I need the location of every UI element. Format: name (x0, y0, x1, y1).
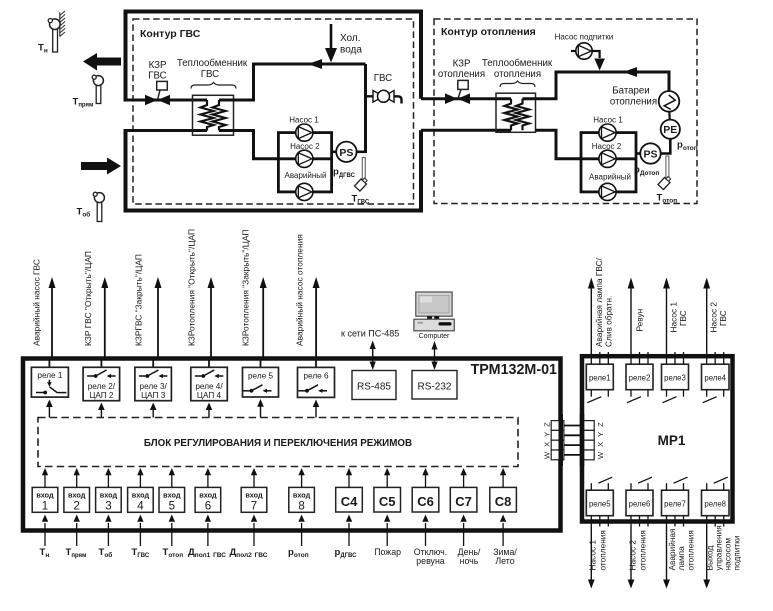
dashed boundary Контур отопления (434, 19, 697, 204)
svg-text:Хол.: Хол. (340, 33, 361, 44)
relay реле8 МР1 (702, 477, 730, 526)
relay реле 3/ЦАП 3 (135, 367, 172, 400)
pump Насос 1 ГВС (296, 124, 313, 141)
svg-text:Насос 1: Насос 1 (289, 116, 319, 125)
sensor Тотоп (657, 156, 678, 205)
svg-text:Ревун: Ревун (635, 309, 645, 332)
input box вход 3 (96, 487, 122, 512)
svg-text:3: 3 (105, 501, 111, 513)
svg-text:реле8: реле8 (704, 500, 726, 509)
input box вход 8 (289, 487, 315, 512)
svg-text:Насос подпитки: Насос подпитки (555, 33, 614, 42)
svg-text:PS: PS (643, 149, 657, 161)
svg-text:Насос 2: Насос 2 (628, 540, 638, 571)
output arrow реле8 МР1 (Выход управления насосом подпитки) (703, 525, 741, 588)
wire pipe supply to HX GVS (y=100) (124, 99, 208, 102)
svg-text:PE: PE (663, 124, 677, 136)
sensor Тгвс (352, 158, 370, 206)
svg-text:реле1: реле1 (589, 374, 611, 383)
svg-text:реле 5: реле 5 (248, 372, 273, 381)
svg-text:6: 6 (205, 501, 211, 513)
arrow flow out (big left arrow) (83, 53, 121, 71)
svg-text:ГВС: ГВС (201, 69, 219, 80)
relay реле5 МР1 (586, 477, 613, 526)
svg-text:реле2: реле2 (629, 374, 651, 383)
svg-text:ЦАП 4: ЦАП 4 (197, 391, 222, 400)
svg-text:Аварийная лампа ГВС/: Аварийная лампа ГВС/ (594, 257, 604, 347)
svg-text:Теплообменник: Теплообменник (177, 58, 248, 69)
svg-text:КЗР: КЗР (453, 59, 471, 70)
svg-text:ночь: ночь (460, 556, 479, 566)
svg-text:КЗРотопления "Открыть"/ЦАП: КЗРотопления "Открыть"/ЦАП (187, 229, 197, 346)
svg-text:4: 4 (137, 501, 144, 513)
svg-text:КЗР: КЗР (149, 60, 167, 71)
connector WXYZ ТРМ side (543, 421, 564, 460)
wire pipe supply to HX otop (y=98.7) (421, 97, 511, 100)
wire heating-network return run (bottom edges) (126, 130, 422, 210)
wire WXYZ interconnect lines (564, 426, 582, 455)
svg-text:Аварийный: Аварийный (285, 171, 327, 180)
valve КЗР отопления (438, 59, 485, 105)
svg-text:отопления: отопления (438, 69, 485, 80)
svg-text:PS: PS (339, 147, 353, 159)
svg-text:Контур ГВС: Контур ГВС (140, 28, 201, 40)
svg-text:ГВС: ГВС (148, 71, 166, 82)
svg-text:к сети ПС-485: к сети ПС-485 (341, 329, 399, 339)
input box вход 4 (128, 487, 154, 512)
arrow flow left on upper otop line (623, 67, 637, 77)
svg-text:вход: вход (100, 490, 118, 499)
svg-text:7: 7 (251, 501, 257, 513)
svg-text:реле4: реле4 (704, 374, 726, 383)
output arrow реле5 ТРМ (КЗРотопления Закрыть/ЦАП) (241, 230, 267, 368)
svg-text:RS-232: RS-232 (418, 382, 452, 393)
output arrow реле2 МР1 (Ревун) (628, 278, 645, 353)
svg-text:Лето: Лето (495, 556, 514, 566)
expansion module box МР1 (582, 356, 733, 521)
svg-text:вход: вход (163, 490, 181, 499)
output arrow реле7 МР1 (Аварийная лампа отопления) (663, 526, 695, 589)
output arrow реле1 МР1 (Аварийная лампа ГВС/Слив обратн.) (588, 257, 614, 352)
svg-text:КЗР ГВС "Открыть"/ЦАП: КЗР ГВС "Открыть"/ЦАП (83, 251, 93, 346)
output arrow реле4 ТРМ (КЗРотопления Открыть/ЦАП) (187, 229, 215, 367)
relay реле2 МР1 (626, 352, 653, 403)
wire pumps outlet to PS отопления (636, 152, 640, 155)
valve КЗР ГВС (145, 60, 170, 105)
svg-text:отопления: отопления (598, 530, 608, 570)
svg-text:W X Y Z: W X Y Z (596, 421, 605, 459)
pump block отопления (581, 116, 636, 201)
svg-text:реле 3/: реле 3/ (140, 382, 168, 391)
block БЛОК РЕГУЛИРОВАНИЯ И ПЕРЕКЛЮЧЕНИЯ РЕЖИМОВ (38, 418, 518, 467)
sensor Тпрям (supply temperature) (73, 75, 104, 108)
svg-text:5: 5 (169, 501, 175, 513)
sensor Тоб (return temperature) (77, 192, 105, 221)
input box С6 (412, 487, 439, 512)
svg-text:Теплообменник: Теплообменник (482, 58, 553, 69)
interface RS-232 (412, 371, 457, 400)
pressure switch PS отопления (640, 143, 660, 163)
svg-text:отопления: отопления (686, 530, 696, 570)
relay реле7 МР1 (662, 477, 689, 526)
svg-text:подпитки: подпитки (732, 535, 742, 570)
heat exchanger ГВС (193, 95, 234, 135)
wire riser from PS up to mixing line (x=365.5) (364, 64, 367, 153)
output arrow реле3 МР1 (Насос 1 ГВС) (663, 278, 688, 353)
svg-text:ЦАП 2: ЦАП 2 (89, 391, 114, 400)
svg-text:ревуна: ревуна (416, 556, 445, 566)
connector WXYZ МР1 side (582, 421, 606, 460)
svg-text:реле 4/: реле 4/ (195, 382, 223, 391)
pump Аварийный отопления (599, 183, 616, 200)
relay реле 2/ЦАП 2 (83, 367, 120, 400)
svg-text:Контур отопления: Контур отопления (441, 26, 536, 38)
wire border overdraw at connectors (559, 414, 564, 466)
input box вход 2 (64, 487, 90, 512)
svg-text:МР1: МР1 (658, 433, 686, 448)
svg-text:W X Y Z: W X Y Z (543, 421, 552, 459)
pump Аварийный ГВС (296, 183, 313, 200)
wire pipe return from HX GVS (y=130.5) (124, 129, 208, 132)
svg-text:С5: С5 (379, 494, 396, 509)
svg-text:ГВС: ГВС (374, 73, 392, 84)
pump Насос подпитки (555, 33, 614, 71)
wire HX right bottom to pumps inlet (219, 131, 278, 159)
relay реле 4/ЦАП 4 (191, 367, 228, 400)
wire radiator to PE (668, 112, 671, 121)
svg-text:Аварийный насос отопления: Аварийный насос отопления (295, 234, 305, 346)
svg-text:вход: вход (36, 490, 54, 499)
arrow Хол. вода inlet (325, 24, 362, 63)
svg-text:Батареи: Батареи (612, 86, 649, 97)
pressure transducer PE (661, 120, 680, 139)
svg-text:С8: С8 (495, 494, 512, 509)
svg-text:вход: вход (245, 490, 263, 499)
svg-text:ЦАП 3: ЦАП 3 (141, 391, 166, 400)
relay реле 5 (243, 367, 279, 397)
arrow flow in (big right arrow) (81, 158, 121, 175)
svg-text:Насос 2: Насос 2 (709, 302, 719, 333)
svg-text:1: 1 (42, 501, 48, 513)
output arrow реле4 МР1 (Насос 2 ГВС) (703, 278, 728, 353)
svg-text:С6: С6 (417, 494, 434, 509)
wire HX right top to cold-water mixing line (219, 64, 366, 100)
wires блок to relays with up arrowheads (49, 406, 316, 418)
svg-text:реле 2/: реле 2/ (88, 382, 116, 391)
svg-text:Слив обратн.: Слив обратн. (604, 296, 614, 347)
input box С8 (490, 487, 517, 512)
svg-text:реле6: реле6 (629, 500, 651, 509)
svg-text:вода: вода (340, 45, 362, 56)
wire pipe return from HX otop (y=130.2) (421, 129, 511, 132)
svg-text:вход: вход (199, 490, 217, 499)
wire HX otop right bottom to pumps inlet (536, 130, 582, 159)
svg-text:отопления: отопления (610, 97, 657, 108)
output arrow реле3 ТРМ (КЗРГВС Закрыть/ЦАП) (134, 254, 162, 367)
relay реле 6 (298, 367, 335, 397)
svg-text:Насос 1: Насос 1 (588, 540, 598, 571)
svg-text:С7: С7 (455, 494, 472, 509)
svg-text:Насос 1: Насос 1 (593, 116, 623, 125)
controller box ТРМ132М-01 (23, 359, 561, 531)
svg-text:Computer: Computer (419, 333, 450, 340)
wires inputs to блок with up arrowheads (45, 475, 503, 488)
relay реле1 МР1 (586, 352, 613, 403)
relay реле4 МР1 (702, 352, 730, 403)
dashed boundary Контур ГВС (133, 19, 414, 204)
svg-text:8: 8 (298, 501, 304, 513)
output arrow реле6 МР1 (Насос 2 отопления) (628, 526, 648, 589)
net к сети RS-485 with double arrow (341, 329, 399, 371)
input box вход 7 (241, 487, 267, 512)
input box вход 1 (32, 487, 58, 512)
svg-text:Аварийный насос ГВС: Аварийный насос ГВС (32, 259, 42, 346)
wire computer to RS-232 (434, 348, 436, 365)
pump Насос 2 отопления (599, 150, 616, 167)
svg-text:отопления: отопления (494, 69, 541, 80)
svg-text:БЛОК РЕГУЛИРОВАНИЯ И ПЕРЕКЛЮЧЕ: БЛОК РЕГУЛИРОВАНИЯ И ПЕРЕКЛЮЧЕНИЯ РЕЖИМО… (144, 438, 412, 449)
svg-text:ГВС: ГВС (678, 310, 688, 326)
interface RS-485 (352, 371, 396, 400)
svg-text:вход: вход (68, 490, 86, 499)
svg-text:ГВС: ГВС (718, 310, 728, 326)
output arrow реле1 ТРМ (Аварийный насос ГВС) (32, 259, 56, 367)
svg-text:Насос 1: Насос 1 (669, 302, 679, 333)
radiator Батареи отопления (610, 86, 679, 112)
sensor Тн (outdoor temperature, wall mounted) (38, 11, 65, 55)
heat exchanger отопления (496, 93, 536, 132)
output arrow реле2 ТРМ (КЗР ГВС Открыть/ЦАП) (83, 251, 108, 367)
svg-text:С4: С4 (341, 494, 358, 509)
svg-text:реле5: реле5 (589, 500, 611, 509)
svg-text:реле 6: реле 6 (304, 372, 329, 381)
output arrow реле5 МР1 (Насос 1 отопления) (588, 526, 608, 589)
pressure switch PS ГВС (336, 142, 356, 162)
svg-text:2: 2 (73, 501, 79, 513)
pump Насос 2 ГВС (296, 150, 313, 167)
computer icon (414, 292, 454, 370)
relay реле3 МР1 (662, 352, 689, 403)
svg-text:вход: вход (293, 490, 311, 499)
wire heating-network supply run (top/left/right edges of solid pipe rectangle) (126, 12, 422, 211)
svg-text:отопления: отопления (638, 530, 648, 570)
relay реле 1 (31, 367, 68, 397)
svg-text:лампа: лампа (676, 546, 686, 571)
input box С5 (374, 487, 401, 512)
svg-text:КЗРГВС "Закрыть"/ЦАП: КЗРГВС "Закрыть"/ЦАП (134, 254, 144, 346)
svg-text:Пожар: Пожар (374, 547, 401, 557)
wires sensor inputs from below with up arrowheads (45, 523, 503, 546)
wire pump outlet to PS to riser (332, 151, 337, 154)
wire PE down to PS отопления (661, 139, 670, 154)
svg-text:реле7: реле7 (664, 500, 686, 509)
svg-text:реле3: реле3 (664, 374, 686, 383)
svg-text:RS-485: RS-485 (357, 382, 391, 393)
svg-text:ТРМ132М-01: ТРМ132М-01 (471, 362, 557, 378)
input box вход 5 (159, 487, 185, 512)
valve ГВС (tap to consumers) (366, 73, 402, 104)
relay реле6 МР1 (626, 477, 653, 526)
svg-text:реле 1: реле 1 (37, 371, 62, 380)
output arrow реле6 ТРМ (Аварийный насос отопления) (295, 234, 320, 367)
input box вход 6 (195, 487, 221, 512)
pump block ГВС (Насос 1 / Насос 2 / Аварийный) (278, 116, 331, 201)
arrow flow left on mixing line (308, 59, 322, 69)
svg-text:КЗРотопления "Закрыть"/ЦАП: КЗРотопления "Закрыть"/ЦАП (241, 230, 251, 346)
svg-text:вход: вход (132, 490, 150, 499)
wire HX otop right top to radiators (523, 72, 670, 99)
svg-text:Аварийный: Аварийный (589, 173, 631, 182)
pump Насос 1 отопления (599, 124, 616, 141)
input box С7 (450, 487, 477, 512)
input box С4 (336, 487, 363, 512)
